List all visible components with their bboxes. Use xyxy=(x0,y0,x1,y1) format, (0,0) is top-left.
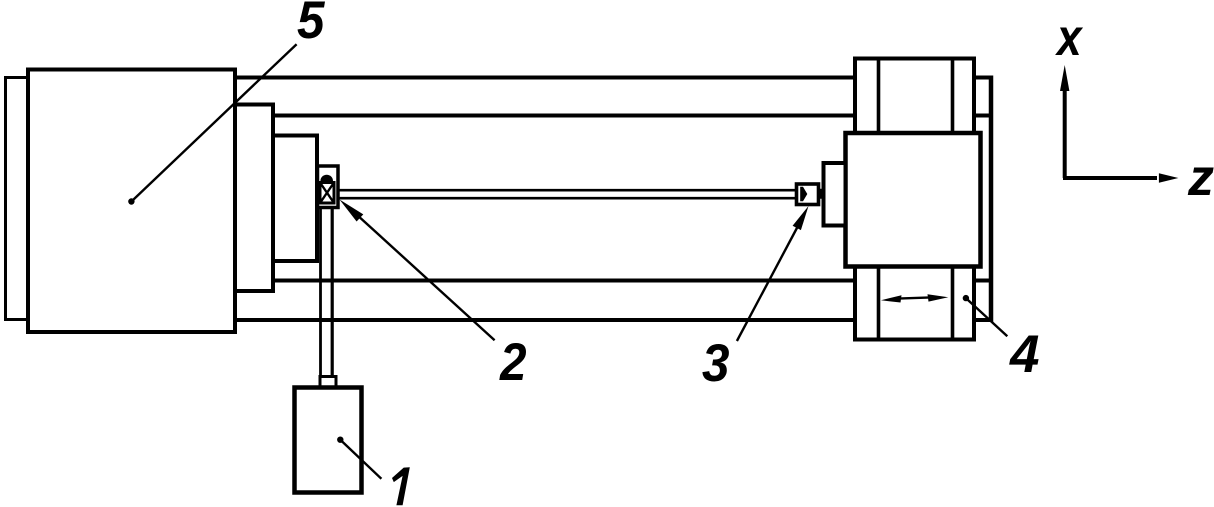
left grip dome xyxy=(320,175,333,181)
specimen cone end in right grip xyxy=(800,187,807,202)
leader line 1 with dot xyxy=(337,437,343,443)
leader line 4 with dot xyxy=(963,295,969,301)
specimen rod upper line xyxy=(333,189,798,192)
guide rail top upper xyxy=(233,76,993,80)
top carriage inner line right xyxy=(951,59,955,134)
top carriage inner line left xyxy=(877,59,881,134)
label 1 xyxy=(392,467,410,505)
left grip housing 2 xyxy=(318,166,339,208)
grip connecting tab xyxy=(818,190,824,199)
leader line 3 with arrowhead xyxy=(737,226,798,341)
bottom carriage inner line left xyxy=(877,267,881,340)
svg-text:z: z xyxy=(1187,149,1214,207)
left grip clamp square with X xyxy=(320,183,334,204)
svg-text:4: 4 xyxy=(1009,325,1039,384)
leader line 5 with dot xyxy=(128,198,134,204)
coordinate axis horizontal z xyxy=(1063,176,1157,180)
right end bar of rail frame xyxy=(989,76,994,323)
guide rail bottom lower xyxy=(233,318,993,322)
clamp X diagonal 2 xyxy=(320,183,334,204)
hanger rod right line xyxy=(331,208,334,379)
coordinate axis vertical x xyxy=(1063,88,1067,178)
hanger rod left line xyxy=(319,208,322,379)
specimen rod lower line xyxy=(333,197,798,200)
headstock step 2 xyxy=(273,136,317,262)
top carriage on rails xyxy=(855,59,974,134)
guide rail bottom upper xyxy=(271,279,993,283)
tailstock nose protrusion xyxy=(824,163,846,226)
weight 1 xyxy=(295,388,362,493)
bottom carriage on rails xyxy=(855,267,974,340)
right grip housing xyxy=(797,184,819,205)
clamp X diagonal 1 xyxy=(320,183,334,204)
label 5 xyxy=(298,2,326,39)
motor housing 5 (headstock body) xyxy=(28,70,235,333)
tailstock main block 4 xyxy=(846,133,981,267)
guide rail top lower xyxy=(271,114,993,118)
label 2 xyxy=(499,343,526,380)
label 3 xyxy=(702,344,729,382)
bottom carriage inner line right xyxy=(951,267,955,340)
travel double arrow in bottom carriage xyxy=(898,297,931,298)
motor rear flange xyxy=(6,78,29,320)
rod-weight connector xyxy=(320,377,336,388)
headstock step 1 xyxy=(235,105,273,292)
label x xyxy=(1055,28,1083,56)
leader line 2 with arrowhead xyxy=(356,214,495,340)
